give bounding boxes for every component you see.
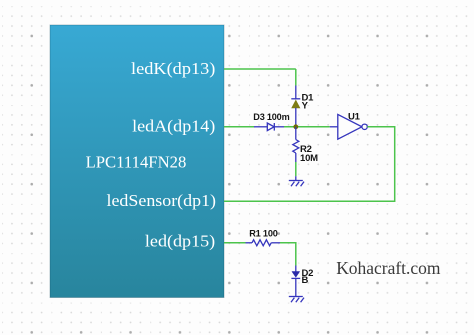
wire U1 output to ledSensor bbox=[224, 127, 395, 202]
svg-text:Kohacraft.com: Kohacraft.com bbox=[336, 258, 441, 278]
IC LPC1114FN28 bbox=[50, 25, 224, 298]
svg-text:R1 100: R1 100 bbox=[249, 228, 278, 239]
svg-text:D3 100m: D3 100m bbox=[253, 112, 289, 123]
wire R2 to ground bbox=[295, 162, 297, 176]
wire junction to U1 bbox=[284, 126, 330, 128]
junction node bbox=[293, 124, 298, 129]
resistor R1 bbox=[246, 240, 281, 246]
svg-text:ledA(dp14): ledA(dp14) bbox=[132, 117, 215, 136]
wire led to R1 bbox=[224, 242, 246, 244]
diode D3 bbox=[254, 123, 284, 131]
svg-text:10M: 10M bbox=[300, 153, 318, 164]
diode D2 bbox=[291, 266, 300, 297]
svg-text:ledK(dp13): ledK(dp13) bbox=[131, 59, 215, 78]
svg-text:B: B bbox=[302, 275, 309, 286]
svg-text:led(dp15): led(dp15) bbox=[145, 231, 215, 250]
svg-text:Y: Y bbox=[302, 100, 309, 111]
wire ledA to D3 bbox=[224, 126, 254, 128]
wire ledK vertical to D1 bbox=[295, 69, 297, 86]
diode D1 bbox=[291, 86, 300, 127]
svg-text:U1: U1 bbox=[348, 111, 361, 122]
svg-text:LPC1114FN28: LPC1114FN28 bbox=[86, 153, 187, 172]
ground (bottom) bbox=[289, 297, 304, 303]
inverter U1 bbox=[330, 114, 368, 139]
wire ledK horizontal bbox=[224, 68, 296, 70]
svg-text:ledSensor(dp1): ledSensor(dp1) bbox=[107, 191, 217, 210]
ground (top) bbox=[289, 176, 304, 186]
resistor R2 bbox=[293, 127, 299, 162]
wire R1 to D2 bbox=[280, 243, 296, 266]
